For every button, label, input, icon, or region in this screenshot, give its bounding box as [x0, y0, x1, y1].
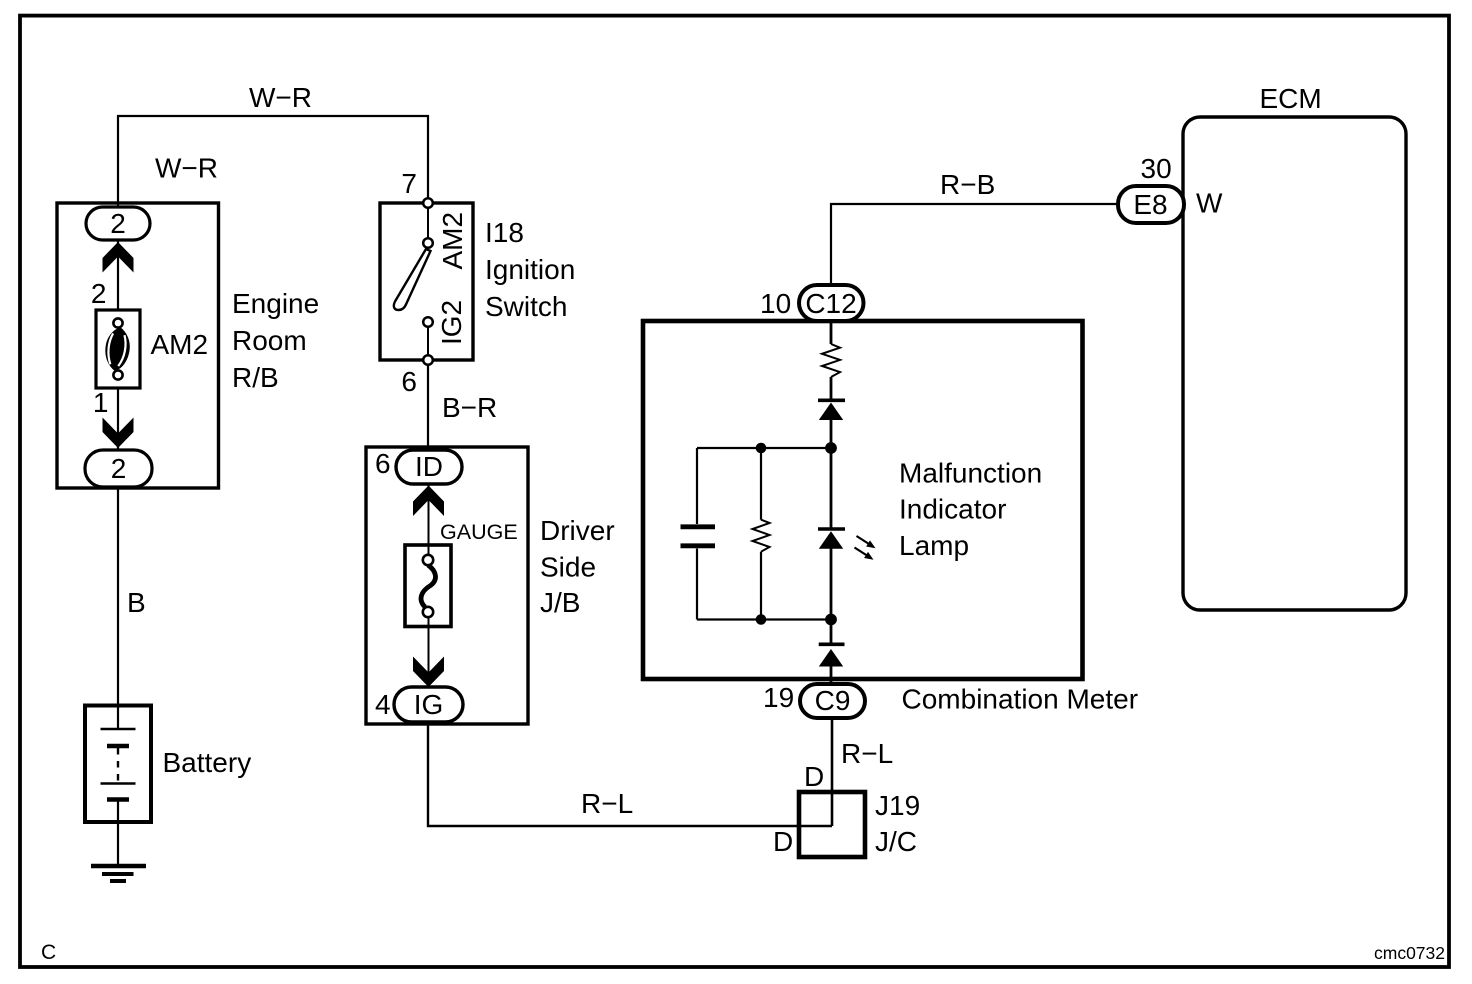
svg-text:2: 2	[111, 453, 127, 484]
resistor R2 branch	[753, 443, 770, 625]
svg-text:cmc0732: cmc0732	[1374, 943, 1445, 963]
svg-text:J19: J19	[875, 790, 920, 821]
svg-text:Indicator: Indicator	[899, 494, 1006, 525]
svg-text:W−R: W−R	[249, 82, 312, 113]
svg-text:C: C	[41, 941, 56, 964]
ground	[91, 866, 146, 881]
svg-text:R/B: R/B	[232, 362, 279, 393]
svg-text:2: 2	[91, 278, 107, 309]
svg-text:Driver: Driver	[540, 515, 615, 546]
node (top junction)	[825, 442, 837, 454]
svg-text:1: 1	[93, 387, 109, 418]
diode D1	[818, 400, 845, 420]
ECM box	[1183, 117, 1406, 610]
connector C9	[800, 684, 865, 718]
wire W-R from Engine Room R/B to Ignition Switch (top run)	[118, 116, 428, 207]
wire inside ignition switch	[427, 207, 429, 357]
connector 2 (top of Engine Room R/B)	[86, 207, 150, 240]
svg-text:D: D	[804, 761, 824, 792]
junction J19 J/C box	[799, 792, 865, 857]
Combination Meter box	[643, 321, 1083, 679]
battery	[85, 706, 151, 865]
wire trunk inside Combination Meter	[830, 321, 833, 684]
svg-text:J/B: J/B	[540, 587, 580, 618]
svg-text:R−B: R−B	[940, 169, 995, 200]
svg-text:AM2: AM2	[151, 329, 209, 360]
svg-text:Battery: Battery	[163, 747, 252, 778]
svg-text:AM2: AM2	[437, 212, 468, 270]
svg-text:6: 6	[375, 448, 391, 479]
arrow down (J/B)	[413, 657, 444, 688]
svg-text:B: B	[127, 587, 146, 618]
svg-text:Switch: Switch	[485, 291, 567, 322]
svg-text:Ignition: Ignition	[485, 254, 575, 285]
wire inside Engine Room R/B	[117, 240, 119, 452]
svg-text:B−R: B−R	[442, 392, 497, 423]
arrow up (J/B)	[413, 486, 444, 517]
Driver Side J/B box	[366, 447, 528, 724]
connector 2 (bottom of Engine Room R/B)	[85, 450, 152, 487]
wire B-R (ignition to Driver Side J/B)	[427, 365, 429, 450]
node (bottom junction)	[825, 614, 837, 626]
arrow up (Engine Room R/B)	[103, 242, 134, 273]
wire B (battery to Engine Room R/B)	[117, 488, 119, 706]
svg-text:6: 6	[401, 366, 417, 397]
resistor R1 (top, zigzag)	[822, 344, 840, 377]
fuse GAUGE (J/B)	[405, 545, 451, 627]
connector E8	[1118, 186, 1184, 223]
wire inside Driver Side J/B	[428, 484, 430, 687]
svg-text:E8: E8	[1133, 189, 1167, 220]
svg-text:19: 19	[763, 682, 794, 713]
switch pins (circles)	[423, 198, 433, 208]
svg-text:Malfunction: Malfunction	[899, 458, 1042, 489]
arrow down (Engine Room R/B)	[103, 418, 134, 449]
svg-text:IG: IG	[414, 689, 444, 720]
svg-text:C12: C12	[805, 288, 856, 319]
svg-text:W: W	[1196, 188, 1223, 219]
svg-text:IG2: IG2	[436, 300, 467, 345]
svg-text:C9: C9	[815, 685, 851, 716]
svg-text:10: 10	[760, 288, 791, 319]
wire bottom rail (parallel network)	[697, 618, 831, 620]
Engine Room R/B box	[57, 203, 219, 488]
svg-text:Lamp: Lamp	[899, 530, 969, 561]
svg-text:GAUGE: GAUGE	[440, 520, 518, 544]
svg-text:D: D	[773, 826, 793, 857]
diode D3 (bottom)	[819, 644, 845, 666]
svg-text:R−L: R−L	[581, 788, 633, 819]
svg-text:ECM: ECM	[1260, 83, 1322, 114]
switch lever	[394, 249, 431, 310]
svg-text:Side: Side	[540, 552, 596, 583]
svg-text:J/C: J/C	[875, 826, 917, 857]
capacitor C1 branch	[681, 448, 716, 620]
wire R-B (C12 to ECM E8)	[831, 204, 1120, 285]
ignition switch I18 box	[380, 203, 473, 360]
wire R-L (IG to J19 J/C)	[428, 722, 832, 826]
LED (malfunction indicator lamp)	[818, 529, 876, 560]
fuse AM2 (Engine Room R/B)	[96, 310, 140, 388]
svg-text:4: 4	[375, 689, 391, 720]
svg-text:W−R: W−R	[155, 153, 218, 184]
svg-text:30: 30	[1141, 153, 1172, 184]
svg-text:2: 2	[110, 208, 126, 239]
wire R-L (C9 to J19 J/C)	[831, 718, 834, 826]
svg-text:I18: I18	[485, 217, 524, 248]
connector C12	[799, 285, 864, 321]
svg-text:Room: Room	[232, 325, 307, 356]
svg-text:Combination Meter: Combination Meter	[902, 684, 1139, 715]
svg-text:7: 7	[401, 168, 417, 199]
connector IG	[394, 687, 463, 722]
svg-text:Engine: Engine	[232, 288, 319, 319]
svg-text:R−L: R−L	[841, 738, 893, 769]
connector ID	[396, 450, 462, 484]
svg-text:ID: ID	[415, 451, 443, 482]
wire top rail (parallel network)	[697, 447, 831, 449]
